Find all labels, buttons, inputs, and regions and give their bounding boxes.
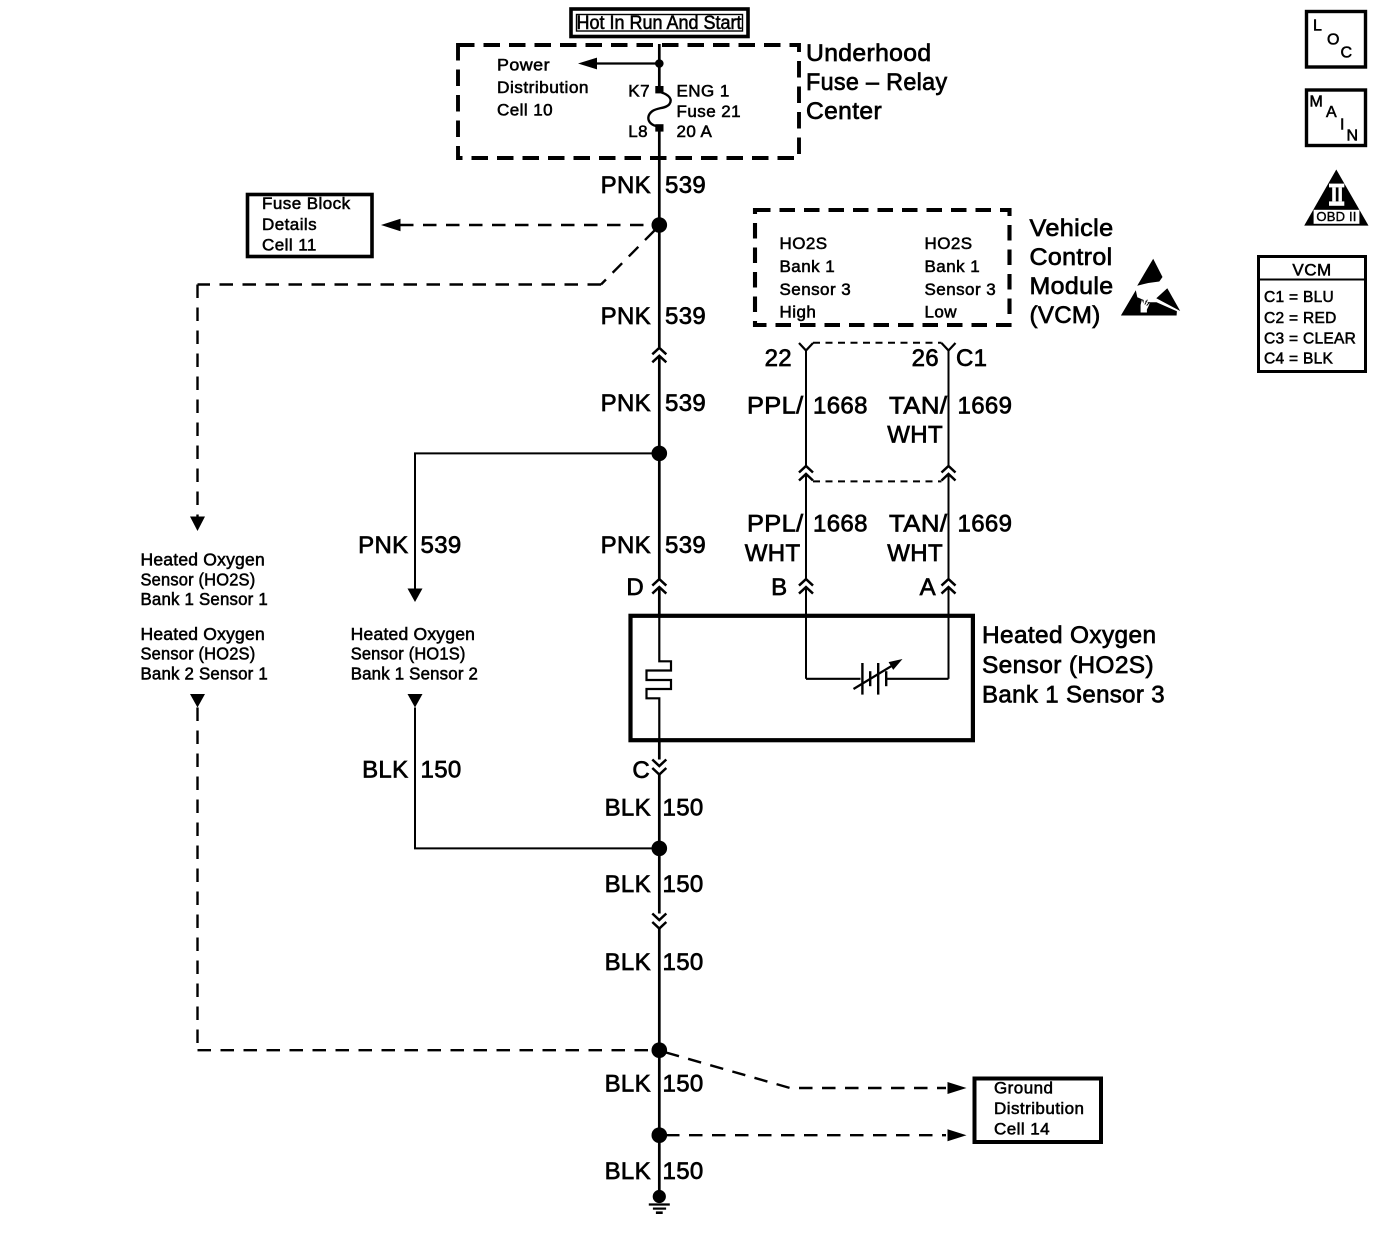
svg-text:Bank 1 Sensor 2: Bank 1 Sensor 2 xyxy=(351,663,478,683)
icon MAIN box xyxy=(1307,90,1366,146)
svg-text:A: A xyxy=(920,574,936,601)
svg-text:539: 539 xyxy=(665,532,706,559)
heater element inside sensor xyxy=(647,616,672,740)
svg-text:PNK: PNK xyxy=(358,532,408,559)
wire label BLK 150 xyxy=(605,871,704,898)
svg-text:O: O xyxy=(1327,32,1340,49)
wire sensor box bottom to chevron xyxy=(658,740,661,759)
wire branch PNK 539 from splice S2 xyxy=(415,453,659,588)
wire TAN/WHT 1669 lower xyxy=(948,475,950,580)
node splice S5 xyxy=(652,1127,668,1143)
wire to Power Distribution arrow xyxy=(596,62,659,64)
svg-text:150: 150 xyxy=(663,949,704,976)
svg-text:C: C xyxy=(1341,45,1353,62)
svg-text:PNK: PNK xyxy=(601,172,651,199)
svg-text:WHT: WHT xyxy=(887,422,943,449)
pin L8 xyxy=(655,124,663,131)
wire label PPL 1668 xyxy=(747,392,868,419)
box Hot In Run And Start xyxy=(571,9,748,37)
label Heated Oxygen Sensor (HO2S) Bank 2 Sensor 1 xyxy=(141,624,268,683)
wire dashed horizontal to left xyxy=(198,283,602,285)
svg-text:22: 22 xyxy=(765,345,792,372)
svg-text:Bank 1: Bank 1 xyxy=(780,257,836,276)
wire PPL 1668 from pin 22 xyxy=(805,351,807,467)
arrow to Fuse Block Details xyxy=(381,219,401,231)
svg-text:Control: Control xyxy=(1030,244,1113,271)
svg-text:Distribution: Distribution xyxy=(994,1099,1084,1118)
connector chevrons pin B xyxy=(799,579,813,594)
sensor variable cell plates xyxy=(862,663,886,695)
node splice S4 xyxy=(652,1042,668,1058)
svg-text:539: 539 xyxy=(665,390,706,417)
svg-text:Heated Oxygen: Heated Oxygen xyxy=(351,624,475,644)
label Underhood Fuse-Relay Center xyxy=(806,40,948,125)
icon ESD sensitive symbol xyxy=(1121,259,1180,316)
svg-text:L: L xyxy=(1313,18,1322,35)
wire BLK 150 to splice S3 xyxy=(658,775,661,914)
svg-text:Center: Center xyxy=(806,98,882,125)
svg-text:Ground: Ground xyxy=(994,1079,1053,1098)
box Heated Oxygen Sensor (HO2S) Bank 1 Sensor 3 xyxy=(631,616,973,740)
box Fuse Block Details Cell 11 xyxy=(248,194,373,257)
connector chevrons on PNK wire xyxy=(652,348,666,363)
connector chevrons pin C (down) xyxy=(652,760,666,775)
svg-text:Bank 1 Sensor 1: Bank 1 Sensor 1 xyxy=(141,589,268,609)
pin 22 connector Y xyxy=(799,343,813,351)
wire sensor element horizontal left xyxy=(806,678,861,680)
wire label PNK 539 xyxy=(601,303,707,330)
pin 26 connector Y xyxy=(942,343,956,351)
svg-text:Bank 2 Sensor 1: Bank 2 Sensor 1 xyxy=(141,663,268,683)
svg-text:BLK: BLK xyxy=(605,949,651,976)
wire dashed left vertical down xyxy=(196,285,198,517)
svg-text:Heated Oxygen: Heated Oxygen xyxy=(141,624,265,644)
box Vehicle Control Module (dashed) xyxy=(755,210,1010,325)
svg-text:Fuse Block: Fuse Block xyxy=(262,194,351,213)
svg-text:Low: Low xyxy=(925,303,958,322)
svg-text:Fuse 21: Fuse 21 xyxy=(677,102,742,121)
box Ground Distribution Cell 14 xyxy=(975,1079,1102,1143)
box Underhood Fuse-Relay Center (dashed) xyxy=(458,45,799,158)
label Vehicle Control Module (VCM) xyxy=(1030,215,1114,329)
svg-text:Sensor 3: Sensor 3 xyxy=(925,280,997,299)
wire label BLK 150 xyxy=(605,949,704,976)
svg-text:OBD II: OBD II xyxy=(1316,209,1356,224)
svg-text:539: 539 xyxy=(665,303,706,330)
arrow from HO1S Bank 1 Sensor 2 xyxy=(408,694,423,708)
svg-text:L8: L8 xyxy=(628,122,648,141)
svg-text:Hot In Run And Start: Hot In Run And Start xyxy=(577,13,743,34)
svg-text:TAN/: TAN/ xyxy=(889,392,948,419)
fuse ENG 1 Fuse 21 20 A xyxy=(648,93,670,127)
value label ENG 1 Fuse 21 20 A xyxy=(677,82,742,142)
connector chevrons PPL wire xyxy=(799,466,813,481)
wire PPL/WHT 1668 lower xyxy=(805,475,807,580)
wire pin A into sensor box xyxy=(948,588,950,679)
svg-text:Distribution: Distribution xyxy=(497,78,589,97)
arrow to Ground Distribution lower xyxy=(948,1129,967,1141)
label Heated Oxygen Sensor (HO1S) Bank 1 Sensor 2 xyxy=(351,624,478,683)
svg-text:1668: 1668 xyxy=(813,511,868,538)
wire pin D into sensor box xyxy=(658,588,661,616)
svg-text:539: 539 xyxy=(665,172,706,199)
pin K7 xyxy=(655,86,663,93)
wire label PPL/WHT 1668 xyxy=(745,511,868,567)
connector chevrons BLK wire (down) xyxy=(652,914,666,929)
svg-text:VCM: VCM xyxy=(1292,261,1331,280)
svg-text:A: A xyxy=(1326,104,1337,121)
label Heated Oxygen Sensor (HO2S) Bank 1 Sensor 1 xyxy=(141,550,268,610)
connector chevrons pin D xyxy=(652,579,666,594)
svg-text:20 A: 20 A xyxy=(677,122,713,141)
svg-text:26: 26 xyxy=(912,345,939,372)
wire label BLK 150 xyxy=(605,1158,704,1185)
svg-text:HO2S: HO2S xyxy=(925,234,973,253)
wire dashed connector C1 top xyxy=(813,342,942,344)
svg-text:1669: 1669 xyxy=(958,511,1013,538)
svg-text:Bank 1 Sensor 3: Bank 1 Sensor 3 xyxy=(982,682,1165,709)
svg-text:PPL/: PPL/ xyxy=(747,511,804,538)
svg-text:HO2S: HO2S xyxy=(780,234,828,253)
wire BLK 150 to ground G103 xyxy=(658,1135,661,1196)
svg-text:C: C xyxy=(632,757,650,784)
wire label TAN/WHT 1669 xyxy=(887,511,1012,567)
svg-text:Vehicle: Vehicle xyxy=(1030,215,1114,242)
svg-text:(VCM): (VCM) xyxy=(1030,302,1101,329)
wire label PNK 539 xyxy=(601,532,707,559)
svg-text:Bank 1: Bank 1 xyxy=(925,257,981,276)
svg-text:Sensor 3: Sensor 3 xyxy=(780,280,852,299)
wire TAN/WHT 1669 from pin 26 xyxy=(948,351,950,467)
label VCM pin function HO2S Bank 1 Sensor 3 High xyxy=(780,234,852,322)
svg-text:150: 150 xyxy=(663,1158,704,1185)
connector chevrons pin A xyxy=(942,579,956,594)
svg-text:C1: C1 xyxy=(956,345,987,372)
wire dashed splice S5 to Ground Distribution xyxy=(666,1134,946,1136)
svg-text:Cell 10: Cell 10 xyxy=(497,101,553,120)
label Heated Oxygen Sensor (HO2S) Bank 1 Sensor 3 xyxy=(982,622,1165,709)
ground symbol xyxy=(649,1190,670,1213)
wire dashed left vertical to ground run xyxy=(196,708,198,1051)
svg-text:B: B xyxy=(771,574,787,601)
label Power Distribution Cell 10 xyxy=(497,56,589,120)
svg-text:D: D xyxy=(626,574,644,601)
node splice S2 xyxy=(652,446,668,462)
svg-text:PPL/: PPL/ xyxy=(747,392,804,419)
svg-text:Heated Oxygen: Heated Oxygen xyxy=(141,550,265,570)
svg-text:High: High xyxy=(780,303,817,322)
svg-text:1669: 1669 xyxy=(958,392,1013,419)
svg-text:Underhood: Underhood xyxy=(806,40,932,67)
svg-text:Cell 11: Cell 11 xyxy=(262,236,317,255)
wire label PNK 539 branch xyxy=(358,532,462,559)
icon LOC box xyxy=(1307,12,1366,68)
svg-text:Sensor (HO2S): Sensor (HO2S) xyxy=(982,652,1154,679)
wire sensor element horizontal right xyxy=(887,678,949,680)
svg-text:ENG 1: ENG 1 xyxy=(677,82,730,101)
svg-text:BLK: BLK xyxy=(362,757,408,784)
svg-text:C4 = BLK: C4 = BLK xyxy=(1264,351,1334,368)
svg-text:BLK: BLK xyxy=(605,1071,651,1098)
node splice in fuse center xyxy=(655,59,664,68)
wire label BLK 150 branch xyxy=(362,757,462,784)
wire label BLK 150 xyxy=(605,795,704,822)
wire dashed splice S1 diagonal xyxy=(601,231,655,285)
node splice S1 xyxy=(652,217,668,233)
icon OBD II triangle xyxy=(1304,170,1368,226)
svg-text:Sensor (HO2S): Sensor (HO2S) xyxy=(141,569,256,589)
svg-text:150: 150 xyxy=(663,1071,704,1098)
svg-text:BLK: BLK xyxy=(605,1158,651,1185)
sensor variable arrow xyxy=(854,659,903,689)
arrow from HO2S Bank 2 Sensor 1 xyxy=(190,694,205,708)
svg-text:150: 150 xyxy=(421,757,462,784)
wire label BLK 150 xyxy=(605,1071,704,1098)
wire branch BLK 150 to splice S3 xyxy=(415,708,659,849)
wire pin B into sensor box xyxy=(805,588,807,679)
node splice S3 xyxy=(652,841,668,857)
connector chevrons TAN wire xyxy=(942,466,956,481)
label VCM pin function HO2S Bank 1 Sensor 3 Low xyxy=(925,234,997,322)
arrow to HO1S Bank 1 Sensor 2 xyxy=(408,589,423,603)
wire dashed splice S1 to Fuse Block Details xyxy=(400,224,651,226)
svg-text:PNK: PNK xyxy=(601,390,651,417)
arrow to Power Distribution xyxy=(578,58,597,70)
wire dashed connector bottom xyxy=(813,480,942,482)
svg-text:Module: Module xyxy=(1030,273,1114,300)
svg-text:C3 = CLEAR: C3 = CLEAR xyxy=(1264,331,1356,348)
arrow to Ground Distribution upper xyxy=(948,1082,967,1094)
svg-text:Details: Details xyxy=(262,215,317,234)
svg-text:N: N xyxy=(1347,128,1359,145)
svg-text:M: M xyxy=(1310,94,1324,111)
svg-text:150: 150 xyxy=(663,795,704,822)
svg-text:PNK: PNK xyxy=(601,303,651,330)
svg-text:Cell 14: Cell 14 xyxy=(994,1119,1050,1138)
table VCM connector colors xyxy=(1259,257,1366,372)
svg-text:Power: Power xyxy=(497,56,550,75)
wire from Hot In Run And Start to fuse xyxy=(658,44,661,87)
wire dashed bottom horizontal to splice S4 xyxy=(198,1049,653,1051)
svg-text:Sensor (HO1S): Sensor (HO1S) xyxy=(351,644,466,664)
wire PNK 539 fuse to splice xyxy=(658,132,661,348)
svg-text:150: 150 xyxy=(663,871,704,898)
arrow to HO2S Bank 1 Sensor 1 xyxy=(190,517,205,532)
wire label PNK 539 xyxy=(601,172,707,199)
svg-text:TAN/: TAN/ xyxy=(889,511,948,538)
svg-text:539: 539 xyxy=(421,532,462,559)
svg-text:C2 = RED: C2 = RED xyxy=(1264,310,1337,327)
svg-text:WHT: WHT xyxy=(745,540,801,567)
svg-text:Heated Oxygen: Heated Oxygen xyxy=(982,622,1156,649)
svg-text:K7: K7 xyxy=(628,82,650,101)
wire BLK 150 to splice S4 xyxy=(658,929,661,1136)
wire label TAN/WHT 1669 xyxy=(887,392,1012,448)
svg-text:Sensor (HO2S): Sensor (HO2S) xyxy=(141,644,256,664)
svg-text:BLK: BLK xyxy=(605,871,651,898)
svg-text:PNK: PNK xyxy=(601,532,651,559)
wire dashed splice S4 to Ground Distribution xyxy=(666,1053,946,1089)
svg-text:C1 = BLU: C1 = BLU xyxy=(1264,289,1334,306)
svg-text:1668: 1668 xyxy=(813,392,868,419)
svg-text:I: I xyxy=(1340,117,1345,134)
svg-text:BLK: BLK xyxy=(605,795,651,822)
wire PNK 539 connector to splice S2 xyxy=(658,356,661,578)
svg-text:Fuse – Relay: Fuse – Relay xyxy=(806,69,948,96)
wire label PNK 539 xyxy=(601,390,707,417)
svg-text:WHT: WHT xyxy=(887,540,943,567)
